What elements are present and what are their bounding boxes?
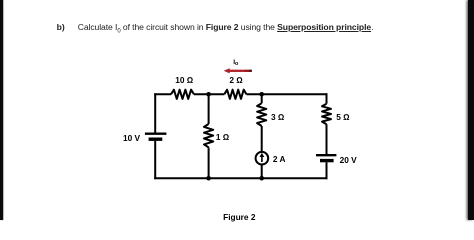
voltage source 10V: short thick plate: [149, 137, 163, 140]
problem text line: [57, 22, 374, 36]
resistor 5Ω (vertical, right): [322, 104, 331, 125]
wire: top left segment: [154, 93, 171, 95]
wire: 5Ω to 20V battery: [326, 124, 328, 155]
junction node: top wire / 3Ω branch: [259, 92, 264, 97]
label 5Ω: [336, 113, 349, 121]
label 1Ω: [216, 133, 229, 141]
label 2Ω: [229, 76, 242, 84]
current arrow Io (red, pointing left): [224, 68, 252, 73]
label 20V: [340, 156, 357, 164]
junction node: bottom wire / 2A branch: [259, 176, 264, 181]
current source 2A: circle: [256, 152, 269, 165]
wire: middle branch lower: [208, 147, 210, 179]
voltage source 10V: long plate: [145, 132, 167, 134]
label 10V: [123, 134, 140, 142]
wire: 3Ω branch top stub: [261, 93, 263, 103]
wire: 2A source to bottom wire: [261, 165, 263, 179]
label 2A: [273, 154, 286, 162]
voltage source 20V: short thick plate: [320, 159, 334, 162]
voltage source 20V: long plate: [316, 154, 336, 156]
caption Figure 2: [223, 213, 255, 221]
label 10Ω: [175, 76, 193, 84]
resistor 2Ω (horizontal, top-middle): [224, 90, 246, 99]
wire: left vertical upper (to 10V battery): [154, 93, 156, 133]
current source 2A: up arrow head: [260, 153, 265, 157]
left black border bar: [0, 0, 3, 220]
right black border bar: [468, 0, 474, 220]
wire: 20V battery to bottom wire: [326, 162, 328, 179]
label Io (above red arrow): [233, 60, 238, 68]
wire: left vertical lower: [154, 141, 156, 179]
resistor 1Ω (vertical, middle branch): [204, 124, 213, 147]
wire: middle branch upper (node to 1Ω): [208, 93, 210, 124]
wire: bottom horizontal: [154, 177, 327, 179]
junction node: bottom wire / 1Ω branch: [206, 176, 211, 181]
wire: top right segment: [247, 93, 328, 95]
label 3Ω: [271, 112, 284, 120]
resistor 10Ω (horizontal, top-left): [171, 90, 194, 99]
wire: 3Ω to 2A source: [261, 126, 263, 151]
wire: right branch top stub: [326, 93, 328, 103]
wire: top middle segment: [194, 93, 224, 95]
resistor 3Ω (vertical): [257, 103, 266, 126]
junction node: top wire / 1Ω branch: [206, 92, 211, 97]
current source 2A: up arrow shaft: [261, 156, 263, 162]
